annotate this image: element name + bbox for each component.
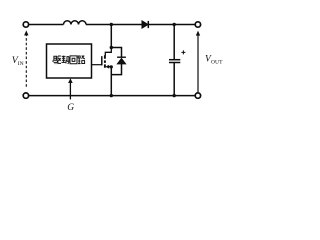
label Vout — [205, 54, 223, 65]
cap top lead — [173, 25, 175, 60]
node drain — [110, 46, 113, 49]
plate bottom — [169, 62, 180, 64]
wire inductor to diode — [86, 24, 142, 26]
arrow Vin (dashed) — [25, 34, 27, 89]
node bottom junction — [110, 94, 113, 97]
wire switch leg upper — [110, 25, 112, 48]
terminal input top — [23, 22, 28, 27]
label G — [67, 103, 74, 113]
gate lead — [92, 64, 102, 66]
capacitor C1 — [169, 23, 185, 98]
triangle (pointing up) — [117, 58, 126, 64]
plus sign — [181, 50, 185, 54]
wire top jog — [111, 48, 121, 58]
svg-text:G: G — [67, 103, 74, 113]
driver box U1 — [47, 44, 92, 78]
cap bottom lead — [173, 63, 175, 96]
kanji 駆 — [53, 56, 61, 64]
inductor L1 — [64, 21, 87, 25]
kanji 路 — [78, 56, 85, 64]
body diode D2 — [111, 48, 126, 75]
diode D1 — [142, 21, 148, 28]
node drain-top junction — [110, 23, 113, 26]
arrow Vout — [197, 33, 199, 92]
svg-text:IN: IN — [18, 61, 24, 67]
gate bar — [101, 56, 103, 65]
wire diode to output — [148, 24, 195, 26]
terminal output top — [195, 22, 200, 27]
drain lead — [105, 48, 111, 56]
node source — [110, 65, 113, 68]
terminal input bottom — [23, 93, 28, 98]
kanji 回 — [70, 56, 77, 64]
node cap bottom — [173, 94, 176, 97]
wire top left — [29, 24, 64, 26]
wire bottom jog — [111, 64, 121, 75]
wire bottom — [29, 95, 195, 97]
kanji 動 — [62, 56, 69, 64]
svg-text:OUT: OUT — [211, 60, 223, 66]
node cap top — [173, 23, 176, 26]
channel dashes — [104, 55, 106, 68]
arrow G input — [69, 80, 71, 99]
source lead with body arrow — [107, 66, 112, 68]
plate top — [169, 59, 180, 61]
label 駆動回路 (drive circuit) — [53, 56, 85, 64]
terminal output bottom — [195, 93, 200, 98]
wire switch leg lower — [110, 67, 112, 96]
transistor Q1 — [92, 48, 112, 69]
label Vin — [12, 55, 24, 67]
cathode bar — [117, 56, 126, 58]
